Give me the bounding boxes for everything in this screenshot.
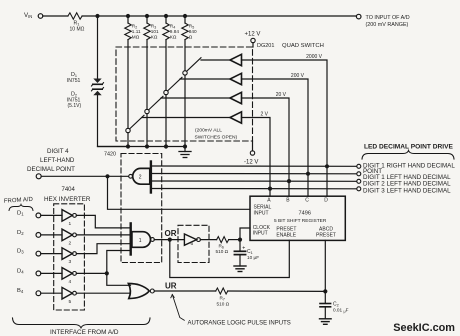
svg-text:20 V: 20 V xyxy=(276,92,287,98)
wire B4 to inverter 5 xyxy=(41,292,62,294)
wire R2 to switch 1 xyxy=(127,40,129,129)
node bus dot R2 xyxy=(126,144,130,148)
brace INTERFACE FROM A/D xyxy=(13,318,151,328)
switch S3 (R4 to 200V line) xyxy=(164,90,168,94)
svg-text:2: 2 xyxy=(139,175,142,181)
node B4 terminal xyxy=(36,291,41,296)
buffer U1c triangle xyxy=(230,92,242,103)
node junction R4 top xyxy=(164,14,168,18)
svg-text:DG201: DG201 xyxy=(257,43,274,49)
svg-text:HEX INVERTER: HEX INVERTER xyxy=(44,196,91,203)
node dot digit2 x 200V line xyxy=(306,172,310,176)
svg-text:LEFT-HAND: LEFT-HAND xyxy=(40,157,75,164)
node digit4 terminal xyxy=(357,187,361,191)
svg-text:VIN: VIN xyxy=(24,12,32,19)
svg-text:-12 V: -12 V xyxy=(244,159,258,165)
wire inverter1 out to gate1 input1 xyxy=(76,215,129,228)
wire OR junction down to preset enable xyxy=(170,240,289,278)
ground symbol under C2 xyxy=(320,318,332,320)
svg-text:UR: UR xyxy=(165,282,177,291)
node junction R5 top xyxy=(183,14,187,18)
svg-text:ENABLE: ENABLE xyxy=(276,233,296,239)
svg-text:D3: D3 xyxy=(17,249,24,255)
wire top bus R1 to A/D terminal xyxy=(82,15,356,17)
wire C2 to ground xyxy=(324,307,326,319)
svg-text:Ω: Ω xyxy=(189,35,193,40)
svg-text:9.84: 9.84 xyxy=(170,29,180,34)
node junction clock/C1 xyxy=(238,238,242,242)
svg-text:D1: D1 xyxy=(17,210,24,216)
svg-text:10 μF: 10 μF xyxy=(247,255,259,260)
resistor R3 101K xyxy=(146,16,148,23)
node bus dot R3 xyxy=(145,144,149,148)
svg-text:10 MΩ: 10 MΩ xyxy=(70,26,85,32)
wire inverter6 out to R6 xyxy=(200,239,216,241)
node TO INPUT OF A/D terminal xyxy=(356,14,361,19)
svg-text:PRESET: PRESET xyxy=(316,233,336,239)
switch S2 (R3 to 20V line) xyxy=(145,109,149,113)
inverter U4b xyxy=(62,229,72,241)
svg-text:200 V: 200 V xyxy=(291,73,305,79)
wire DIGIT4 terminal to 7420 output xyxy=(41,175,128,177)
svg-text:IN751: IN751 xyxy=(67,78,81,84)
svg-text:OR: OR xyxy=(165,229,177,238)
wire R5 to switch 4 xyxy=(184,40,186,71)
node -12V terminal xyxy=(250,151,254,155)
dashed box around inverter 6 xyxy=(178,225,209,262)
svg-text:D4: D4 xyxy=(17,268,24,274)
node junction D4 branch xyxy=(105,271,109,275)
svg-text:DECIMAL POINT: DECIMAL POINT xyxy=(27,166,75,173)
node dot digit1 x 2000V line xyxy=(325,164,329,168)
wire inverter2 out to gate1 input2 xyxy=(76,234,129,236)
wire R7 to C2 junction xyxy=(228,290,325,292)
svg-text:DIGIT 4: DIGIT 4 xyxy=(47,148,69,155)
svg-text:101: 101 xyxy=(151,29,159,34)
7496 shift register box U3 xyxy=(250,196,345,240)
dashed box 7404 hex inverter xyxy=(54,204,85,310)
svg-text:0.01 μF: 0.01 μF xyxy=(333,308,349,314)
switch S4 (R5 to 2000V line) xyxy=(183,71,187,75)
node digit3 terminal xyxy=(357,179,361,183)
svg-text:2 V: 2 V xyxy=(260,111,268,117)
wire serial tap down and right to 7496 SERIAL INPUT xyxy=(108,176,251,209)
resistor R7 510 ohm xyxy=(216,288,228,294)
buffer U1a triangle xyxy=(230,54,242,65)
svg-text:B4: B4 xyxy=(17,288,24,294)
brace under FROM A/D xyxy=(9,205,33,211)
wire C1 to ground xyxy=(239,255,241,266)
wire VIN to R1 xyxy=(43,15,68,17)
node bus dot R5 xyxy=(183,144,187,148)
svg-text:KΩ: KΩ xyxy=(151,35,158,40)
node +12V terminal xyxy=(251,38,255,42)
wire gate1 output to inverter 6 xyxy=(154,239,184,241)
svg-text:7420: 7420 xyxy=(104,152,116,158)
node D1 terminal xyxy=(36,213,41,218)
wire UR output to R7 xyxy=(154,290,215,292)
DG201 quad switch dashed box xyxy=(116,47,253,141)
wire 20V output xyxy=(242,98,290,196)
svg-text:A: A xyxy=(267,198,271,204)
svg-text:MΩ: MΩ xyxy=(132,35,140,40)
wire D4 to inverter 4 xyxy=(41,272,62,274)
svg-text:LED DECIMAL POINT DRIVE: LED DECIMAL POINT DRIVE xyxy=(364,143,454,150)
inverter U4a xyxy=(62,210,72,222)
ground symbol under C1 xyxy=(234,265,246,267)
wire digit line 2 (DIGIT 1 LEFT HAND) xyxy=(152,173,356,175)
wire ground bus under switches xyxy=(98,146,186,148)
op 7420 NAND gate U2 (mirrored) xyxy=(133,168,150,184)
resistor R1 xyxy=(68,13,82,19)
node VIN input terminal xyxy=(38,14,43,19)
svg-text:D: D xyxy=(324,198,328,204)
wire diode branch down xyxy=(97,16,99,79)
inverter U4e xyxy=(62,287,72,299)
resistor R4 9.84K xyxy=(165,16,167,23)
wire junction up to CLOCK INPUT xyxy=(240,228,250,240)
node dot digit3 x 20V line xyxy=(287,179,291,183)
node bus dot R4 xyxy=(164,144,168,148)
wire D2 to inverter 2 xyxy=(41,234,62,236)
diode D1 zener IN751 xyxy=(93,79,101,84)
node dot digit4 x 2V line xyxy=(268,187,272,191)
svg-text:INPUT: INPUT xyxy=(253,231,268,237)
node junction R1/diodes xyxy=(95,14,99,18)
svg-text:1: 1 xyxy=(139,238,142,244)
leader arrow to UR line xyxy=(172,295,184,321)
svg-text:+: + xyxy=(242,245,245,251)
svg-text:D2: D2 xyxy=(71,91,77,97)
ground symbol under switch bus xyxy=(184,147,186,152)
wire inverter5 out to OR gate input2 xyxy=(76,292,130,294)
wire inverter4 out to junction xyxy=(76,272,106,274)
wire switch line to buffer 4 (2V) xyxy=(142,117,230,119)
svg-text:INPUT: INPUT xyxy=(254,210,269,216)
wire ABCD PRESET down to junction xyxy=(324,240,326,291)
wire diodes to ground-bus corner xyxy=(98,95,128,146)
svg-text:5: 5 xyxy=(69,299,72,305)
node junction OR output xyxy=(168,238,172,242)
wire digit line 3 (DIGIT 2 LEFT HAND) xyxy=(152,180,356,182)
resistor R6 510 ohm xyxy=(217,237,229,243)
dashed box around gates 1 and 2 xyxy=(121,154,162,263)
svg-text:1.11: 1.11 xyxy=(132,29,141,34)
wire R6 to clock junction xyxy=(229,239,240,241)
buffer U1d triangle xyxy=(230,112,242,123)
svg-text:DIGIT 3 LEFT HAND DECIMAL: DIGIT 3 LEFT HAND DECIMAL xyxy=(363,188,451,195)
capacitor C1 10uF xyxy=(239,240,241,251)
wire R3 to switch 2 xyxy=(146,40,148,110)
node D4 terminal xyxy=(36,271,41,276)
wire D1 to inverter 1 xyxy=(41,214,62,216)
inverter U4d xyxy=(62,268,72,280)
node D2 terminal xyxy=(36,233,41,238)
inverter U4c xyxy=(62,248,72,260)
wire R4 to switch 3 xyxy=(165,40,167,91)
wire 2000V output xyxy=(242,60,328,196)
wire inverter3 out to gate1 input3 xyxy=(76,244,129,254)
svg-text:4: 4 xyxy=(69,279,72,285)
wire D3 to inverter 3 xyxy=(41,253,62,255)
wire 2V output xyxy=(242,118,271,197)
svg-text:3: 3 xyxy=(69,259,72,265)
svg-text:B: B xyxy=(286,198,290,204)
wire D4 junction down to OR gate input1 xyxy=(107,273,131,285)
svg-text:840: 840 xyxy=(189,29,197,34)
op OR gate U6 xyxy=(128,284,149,299)
op NAND gate U5 (gate 1) xyxy=(129,223,131,254)
svg-text:510 Ω: 510 Ω xyxy=(217,301,230,306)
inverter U4f (gate 6) xyxy=(184,234,196,245)
svg-text:2000 V: 2000 V xyxy=(306,54,323,60)
svg-text:+12 V: +12 V xyxy=(245,32,261,38)
svg-text:7404: 7404 xyxy=(62,187,76,193)
svg-text:SeekIC.com: SeekIC.com xyxy=(393,322,455,334)
wire D4 junction up to gate1 input4 xyxy=(107,251,130,274)
svg-text:INTERFACE FROM A/D: INTERFACE FROM A/D xyxy=(50,329,119,336)
node digit2 terminal xyxy=(357,172,361,176)
svg-text:1: 1 xyxy=(69,221,72,227)
resistor R2 1.11M xyxy=(127,16,129,23)
svg-text:FROM A/D: FROM A/D xyxy=(4,197,34,205)
svg-text:5 BIT SHIFT REGISTER: 5 BIT SHIFT REGISTER xyxy=(274,218,327,224)
capacitor C2 0.01uF xyxy=(324,291,326,303)
node D3 terminal xyxy=(36,251,41,256)
svg-text:6: 6 xyxy=(191,241,194,247)
wire 200V output xyxy=(242,79,309,196)
buffer U1b triangle xyxy=(230,73,242,84)
wire digit line 4 (DIGIT 3 LEFT HAND) xyxy=(152,188,356,190)
wire switch line to buffer 3 (20V) xyxy=(161,97,230,99)
node junction R3 top xyxy=(145,14,149,18)
svg-text:C: C xyxy=(305,198,309,204)
brace over decimal point outputs xyxy=(362,151,454,160)
wire switch line to buffer 2 (200V) xyxy=(180,78,230,80)
svg-text:D2: D2 xyxy=(17,230,24,236)
resistor R5 840 ohm xyxy=(184,16,186,23)
wire digit line 1 (DIGIT 1 RIGHT HAND) xyxy=(152,165,356,167)
diode D2 zener IN751 5.1V xyxy=(93,88,102,90)
node digit1 terminal xyxy=(357,164,361,168)
svg-text:TO INPUT OF A/D: TO INPUT OF A/D xyxy=(366,15,410,21)
svg-text:KΩ: KΩ xyxy=(170,35,177,40)
switch S1 (R2 to 2V line) xyxy=(126,128,130,132)
svg-text:R1: R1 xyxy=(74,20,81,26)
svg-text:7496: 7496 xyxy=(299,211,311,217)
wire switch line to buffer 1 (2000V) xyxy=(201,59,230,61)
svg-text:(200mV ALL: (200mV ALL xyxy=(195,127,222,133)
svg-text:SWITCHES OPEN): SWITCHES OPEN) xyxy=(195,135,238,141)
svg-text:(5.1V): (5.1V) xyxy=(68,103,82,109)
svg-text:(200 mV RANGE): (200 mV RANGE) xyxy=(366,22,409,28)
svg-text:2: 2 xyxy=(69,241,72,247)
svg-text:510 Ω: 510 Ω xyxy=(216,249,229,254)
node DIGIT4 terminal xyxy=(36,174,41,179)
svg-text:QUAD SWITCH: QUAD SWITCH xyxy=(282,43,324,49)
node junction R2 top xyxy=(126,14,130,18)
node junction serial tap xyxy=(105,174,109,178)
node junction UR/ABCD preset/C2 xyxy=(323,289,327,293)
svg-text:AUTORANGE LOGIC PULSE INPUTS: AUTORANGE LOGIC PULSE INPUTS xyxy=(188,320,291,326)
